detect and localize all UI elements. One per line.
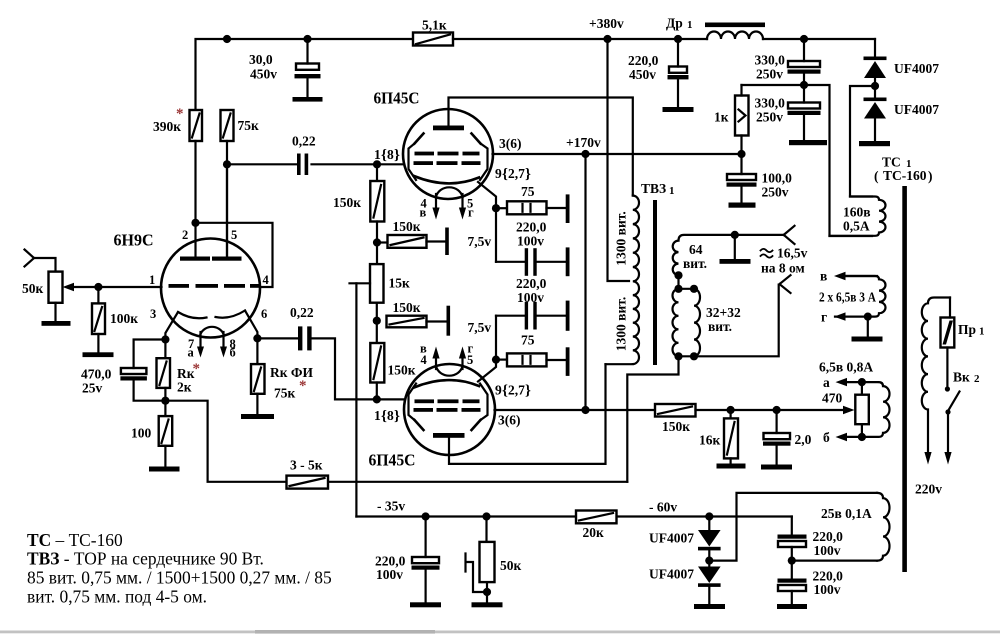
junction cathode node upper 6P45S [492,204,500,212]
svg-text:}: } [394,148,400,164]
wire +380 bus vertical to primary tap [608,39,630,281]
junction grid coupling node [223,160,231,168]
svg-text:100v: 100v [517,234,544,249]
ground bias diodes [694,604,725,609]
svg-text:*: * [299,378,307,394]
transformer TC1 primary 220v [922,298,950,453]
transformer TC1 core [902,186,907,572]
wire 1k bottom lead [740,85,742,154]
wire bypass to cathode lower [495,316,497,360]
svg-text:}: } [525,167,531,183]
svg-text:2,7: 2,7 [508,383,525,398]
ground neg caps [777,604,807,609]
svg-text:- 35v: - 35v [377,499,405,514]
svg-text:250v: 250v [756,67,783,82]
wire grid1 to tube [98,286,161,288]
wire 75k bottom lead [226,141,228,257]
heater pin5 arrow lower [459,347,466,370]
secondary 32+32 right winding [694,289,700,357]
svg-text:UF4007: UF4007 [649,531,694,546]
svg-text:220,0: 220,0 [628,53,659,68]
junction 470 bottom [858,433,866,441]
arrow terminal g [834,312,846,320]
ground 2,0 cap [761,465,792,470]
wire diode2 to ground [874,119,876,142]
choke Dr1 core bar [705,23,765,28]
junction 150k h2 node [373,317,381,325]
plug prong left arrow [924,452,931,465]
wire 1k top [742,84,802,86]
grid dashes row1 lower tube [415,399,480,403]
svg-text:9: 9 [495,166,502,181]
heater arc lower tube [436,366,463,376]
wire caps mid to 160v winding bottom [804,85,872,236]
svg-text:1: 1 [374,408,381,423]
capacitor 220,0 100v neg2 [778,579,807,605]
transformer TC1 winding 25v 0,1A [877,493,890,561]
svg-text:75: 75 [521,184,535,199]
wire fuse lead [949,298,951,318]
resistor 5,1k [413,33,453,46]
svg-text:2,0: 2,0 [795,432,812,447]
wire -35v row [356,515,791,517]
capacitor 2,0 [763,410,791,465]
svg-text:470,0: 470,0 [81,367,112,382]
wire rail right segment [763,38,875,40]
wire anode stem to rail [449,98,633,196]
svg-text:5: 5 [467,353,473,367]
junction 220/450 cap [674,35,682,43]
svg-text:6П45С: 6П45С [369,451,416,470]
svg-text:3 - 5к: 3 - 5к [290,458,323,473]
ground 220/450 cap [663,107,694,112]
resistor 100 [159,401,173,467]
speaker terminal lower [780,275,791,293]
cathode lead 9(2,7) lower [478,360,496,382]
wire 64vit to 32+32 [677,275,679,289]
svg-text:8: 8 [387,408,394,423]
capacitor 220,0 100v lower [496,302,566,330]
junction cathode node lower 6P45S [492,356,500,364]
label approx 16,5v [761,249,773,258]
junction +380 bus [603,35,611,43]
svg-text:150к: 150к [333,195,361,210]
stub plate 220 lower [566,301,570,331]
svg-text:+380v: +380v [589,16,624,31]
junction grid1 node [94,283,102,291]
ground Rk FI [241,414,274,419]
svg-text:450v: 450v [250,67,277,82]
wire fuse to switch [946,348,948,386]
resistor 150k grid lower [370,321,384,400]
wire anode pin5 stem [226,164,228,256]
svg-text:9: 9 [495,383,502,398]
potentiometer 50k input [49,272,63,303]
junction grid node upper 6P45S [373,160,381,168]
wire input to pot [34,258,56,272]
wire 150k to 470 arrow [696,409,845,411]
stub plate lower [447,306,451,336]
junction cathode pin3 node [161,335,169,343]
wire anode lower to primary bottom [449,364,606,464]
svg-text:в: в [420,206,427,220]
wire anode pin2 stem [194,223,196,257]
svg-text:6: 6 [261,307,267,321]
transformer TVZ1 core [653,200,657,365]
svg-text:8: 8 [387,147,394,162]
resistor 150k bias row [655,404,696,417]
tube 6P45S lower envelope [404,364,495,455]
svg-text:0,5А: 0,5А [843,219,870,234]
capacitor 220,0 100v upper [496,248,566,276]
svg-text:г: г [821,310,827,325]
cathode arc lower tube [414,380,479,387]
junction 470 top [858,378,866,386]
svg-text:100к: 100к [110,311,138,326]
wire pot bottom [54,303,56,321]
svg-text:6Н9С: 6Н9С [114,231,154,250]
svg-text:}: } [525,383,531,399]
svg-text:UF4007: UF4007 [894,102,939,117]
junction 220uF -35 node [422,512,430,520]
svg-text:75к: 75к [274,386,296,401]
svg-text:1300 вит.: 1300 вит. [614,211,629,265]
junction 64vit bottom [674,271,682,279]
svg-text:Пр: Пр [958,322,976,337]
ground 100 [149,467,180,472]
svg-text:5,1к: 5,1к [422,18,447,33]
junction 30,0 cap [303,35,311,43]
junction +170 bus [581,150,589,158]
svg-text:100v: 100v [814,543,841,558]
svg-text:25v: 25v [82,381,103,396]
ground 100k [83,352,114,357]
wiper arrow input pot [63,283,99,291]
beam plate right upper tube [472,134,488,181]
capacitor 0,22 first [227,154,404,176]
svg-text:0,22: 0,22 [290,305,314,320]
ground 30,0 cap [293,97,323,102]
resistor 150k grid upper [370,164,384,264]
heater pin5 arrow upper [459,194,466,220]
svg-text:250v: 250v [762,185,789,200]
svg-text:0,22: 0,22 [292,134,316,149]
capacitor 220,0 100v bias [412,517,440,603]
heater pin4 arrow lower [432,347,439,370]
svg-text:UF4007: UF4007 [649,567,694,582]
svg-text:+170v: +170v [566,135,601,150]
stub plate upper [445,228,449,256]
anode bar upper tube [433,126,464,131]
svg-text:220,0: 220,0 [813,529,844,544]
svg-text:250v: 250v [756,110,783,125]
anode bar pin2 [180,257,210,261]
svg-text:а: а [823,375,830,390]
resistor 3-5k [287,476,329,489]
capacitor 220,0 100v neg1 [778,517,807,579]
wire rail to rectifier [874,39,876,57]
svg-text:4: 4 [263,273,270,287]
junction cathode pin6 node [253,334,261,342]
wire 32+32 bottom to speaker [679,285,779,357]
svg-text:100v: 100v [376,567,403,582]
svg-text:б: б [823,430,830,445]
wire bias winding top link [709,493,877,561]
capacitor 100,0 250v [727,154,757,203]
svg-text:(: ( [874,169,879,184]
svg-text:330,0: 330,0 [755,53,786,68]
junction doubler node [871,82,879,90]
svg-text:5: 5 [231,228,237,242]
svg-text:ТС – ТС-160: ТС – ТС-160 [27,530,123,550]
input terminal [25,250,35,267]
svg-text:ТС-160: ТС-160 [883,168,927,183]
cathode arc right triode [216,311,246,318]
capacitor 220,0 450v [668,39,689,107]
svg-text:150к: 150к [388,363,416,378]
svg-text:100: 100 [131,426,152,441]
wire bias feed vertical [355,283,357,516]
svg-text:Вк: Вк [953,370,970,385]
wire 390k bottom lead [194,141,196,223]
resistor 16k [724,410,738,464]
arrow terminal a [836,378,878,386]
grid dashes row2 upper tube [414,161,481,165]
ground 330 caps [789,140,827,145]
junction 75k top [223,35,231,43]
grid dashes row1 upper tube [415,152,480,156]
secondary 32+32 left winding [673,289,679,357]
resistor Rk 2k [157,340,171,401]
svg-text:6П45С: 6П45С [374,89,420,108]
svg-text:150к: 150к [662,419,690,434]
svg-text:16к: 16к [699,433,721,448]
transformer TC1 winding 6,5v 0,8A [845,382,890,437]
svg-text:16,5v: 16,5v [777,246,808,261]
tube 6P45S upper envelope [403,109,493,199]
transformer TC1 winding 2x6,5v 3A [835,276,886,317]
svg-text:2,7: 2,7 [508,166,525,181]
svg-text:470: 470 [822,391,843,406]
heater pin7 arrow [197,332,204,358]
junction 64vit top ground tap [731,231,739,239]
heater pin8 arrow [220,332,227,358]
svg-text:330,0: 330,0 [755,96,786,111]
svg-text:2: 2 [182,228,188,242]
ground input pot [42,321,71,326]
svg-text:а: а [188,346,195,360]
svg-text:Rк ФИ: Rк ФИ [270,365,313,380]
wire tap to ground [734,235,736,259]
resistor 150k horizontal upper [377,235,445,248]
junction 150k h1 node [373,238,381,246]
svg-text:7,5v: 7,5v [468,234,492,249]
svg-text:1: 1 [979,326,985,338]
svg-text:220v: 220v [915,482,942,497]
svg-text:1: 1 [374,147,381,162]
resistor 100k [92,287,105,352]
svg-text:64: 64 [689,242,703,257]
wire +170 bus vertical [584,154,586,410]
potentiometer 50k bias [480,517,495,603]
svg-text:на 8 ом: на 8 ом [761,261,805,276]
resistor 75 upper [496,201,566,214]
arrowhead into 470 [843,406,855,414]
plug prong right arrow [944,452,951,465]
wire neg caps mid to winding bottom [792,559,877,561]
svg-text:100v: 100v [517,290,544,305]
junction 32+32 top right [690,285,698,293]
capacitor 330,0 250v lower [788,89,821,140]
resistor 150k horizontal lower [387,316,447,328]
wire screen row lower tube [495,409,656,411]
svg-text:150к: 150к [393,300,421,315]
svg-text:1300 вит.: 1300 вит. [614,297,629,351]
cathode arc upper tube [414,176,479,183]
junction UF4007 bias node [705,512,713,520]
diode UF4007 bias1 [698,517,721,561]
junction 330 caps top [800,35,808,43]
svg-text:32+32: 32+32 [706,305,741,320]
wire +380 rail left segment [196,39,414,110]
ground 100,0 cap [729,203,756,208]
junction 2,0 cap node [773,406,781,414]
capacitor 330,0 250v upper [788,39,821,81]
wire feedback from secondary [627,356,678,482]
resistor 75 lower [496,353,566,366]
svg-text:220,0: 220,0 [516,220,547,235]
beam plate right lower tube [472,384,488,431]
beam plate left upper tube [409,134,424,181]
wire tap to ground [867,317,869,337]
svg-text:50к: 50к [500,558,522,573]
svg-text:вит.: вит. [708,319,732,334]
junction 50k pot node [482,512,490,520]
svg-text:3: 3 [150,307,156,321]
resistor 20k [576,511,617,524]
wire feedback 3-5k row [165,401,627,482]
svg-text:вит.: вит. [683,256,707,271]
fuse Pr1 [941,318,955,348]
anode bar pin5 [212,257,242,261]
wire doubler node to 160v winding top [850,86,873,197]
stub plate 75 upper [566,194,570,223]
secondary 64 vit winding [673,235,784,275]
svg-text:*: * [193,361,201,377]
capacitor 470,0 25v [120,368,165,401]
svg-text:7,5v: 7,5v [468,320,492,335]
svg-text:1к: 1к [714,110,729,125]
speaker terminal upper [784,226,795,244]
wire between diodes [874,78,876,98]
svg-text:85 вит. 0,75 мм. / 1500+1500 0: 85 вит. 0,75 мм. / 1500+1500 0,27 мм. / … [27,568,332,588]
heater pin4 arrow upper [432,194,439,220]
resistor 15k tapped [370,264,384,316]
svg-text:6,5в 0,8А: 6,5в 0,8А [819,360,873,375]
svg-text:3(6): 3(6) [499,136,522,151]
resistor 470 [855,382,869,437]
svg-text:2к: 2к [177,380,192,395]
svg-text:1: 1 [149,273,155,287]
svg-text:100,0: 100,0 [762,171,793,186]
junction screen bus [581,406,589,414]
junction 32+32 bottom left [674,352,682,360]
wire pin2 to pin4 link [196,223,273,287]
capacitor 0,22 second [257,326,404,399]
svg-text:75к: 75к [238,118,260,133]
resistor 390k [190,110,203,141]
junction grid node lower 6P45S [373,395,381,403]
tube 6N9S envelope [161,239,260,338]
svg-text:3(6): 3(6) [498,413,521,428]
wire 15k tap stub [350,282,371,284]
choke Dr1 winding [707,32,763,39]
svg-text:г: г [468,206,474,220]
junction 16k node [727,406,735,414]
cathode lead pin6 [245,311,257,339]
stub plate 75 lower [566,347,570,376]
ground 16k [717,464,746,469]
svg-text:150к: 150к [393,219,421,234]
svg-text:1: 1 [669,185,675,197]
svg-text:75: 75 [521,333,535,348]
ground rectifier [859,141,890,146]
junction 1k bottom [737,150,745,158]
grid dashes 6N9S [169,284,261,288]
cathode lead 9(2,7) upper [478,182,496,208]
svg-text:25в 0,1А: 25в 0,1А [821,506,872,521]
resistor Rk FI 75k [251,338,265,414]
junction anode-grid link node [191,219,199,227]
svg-text:50к: 50к [22,281,44,296]
diode UF4007 top2 [864,98,887,119]
svg-text:30,0: 30,0 [249,52,273,67]
junction 330 caps mid [800,81,808,89]
svg-text:UF4007: UF4007 [894,61,939,76]
svg-text:Др: Др [666,16,683,31]
svg-text:): ) [928,169,933,184]
wiper 50k bias [466,554,492,597]
svg-text:2 х 6,5в 3 А: 2 х 6,5в 3 А [819,290,876,305]
svg-text:}: } [394,409,400,425]
ground 6,3v winding [852,337,883,342]
grid dashes row2 lower tube [414,408,481,412]
heater arc upper tube [436,187,463,197]
svg-text:в: в [820,269,827,284]
wire cathode to bypass upper [495,208,497,262]
switch Vk2 [945,386,960,452]
svg-text:160в: 160в [843,205,871,220]
heater arc 6N9S [201,327,224,334]
svg-text:2: 2 [974,373,980,385]
svg-text:20к: 20к [583,525,605,540]
resistor 75k input [221,110,234,141]
resistor 1k [735,96,749,136]
wire +170v rail [493,153,742,155]
svg-text:100v: 100v [814,582,841,597]
svg-text:- 60v: - 60v [649,500,677,515]
arrow terminal b [836,433,848,441]
beam plate left lower tube [409,384,424,431]
transformer TVZ1 primary [606,196,640,365]
svg-text:4: 4 [421,353,428,367]
junction 32+32 top left [674,285,682,293]
wire 32+32 tops link [679,288,695,290]
svg-text:б: б [230,346,236,360]
svg-text:ТВЗ: ТВЗ [641,181,666,196]
wire cathode node to 470uF [134,340,166,369]
anode bar lower tube [433,433,465,438]
